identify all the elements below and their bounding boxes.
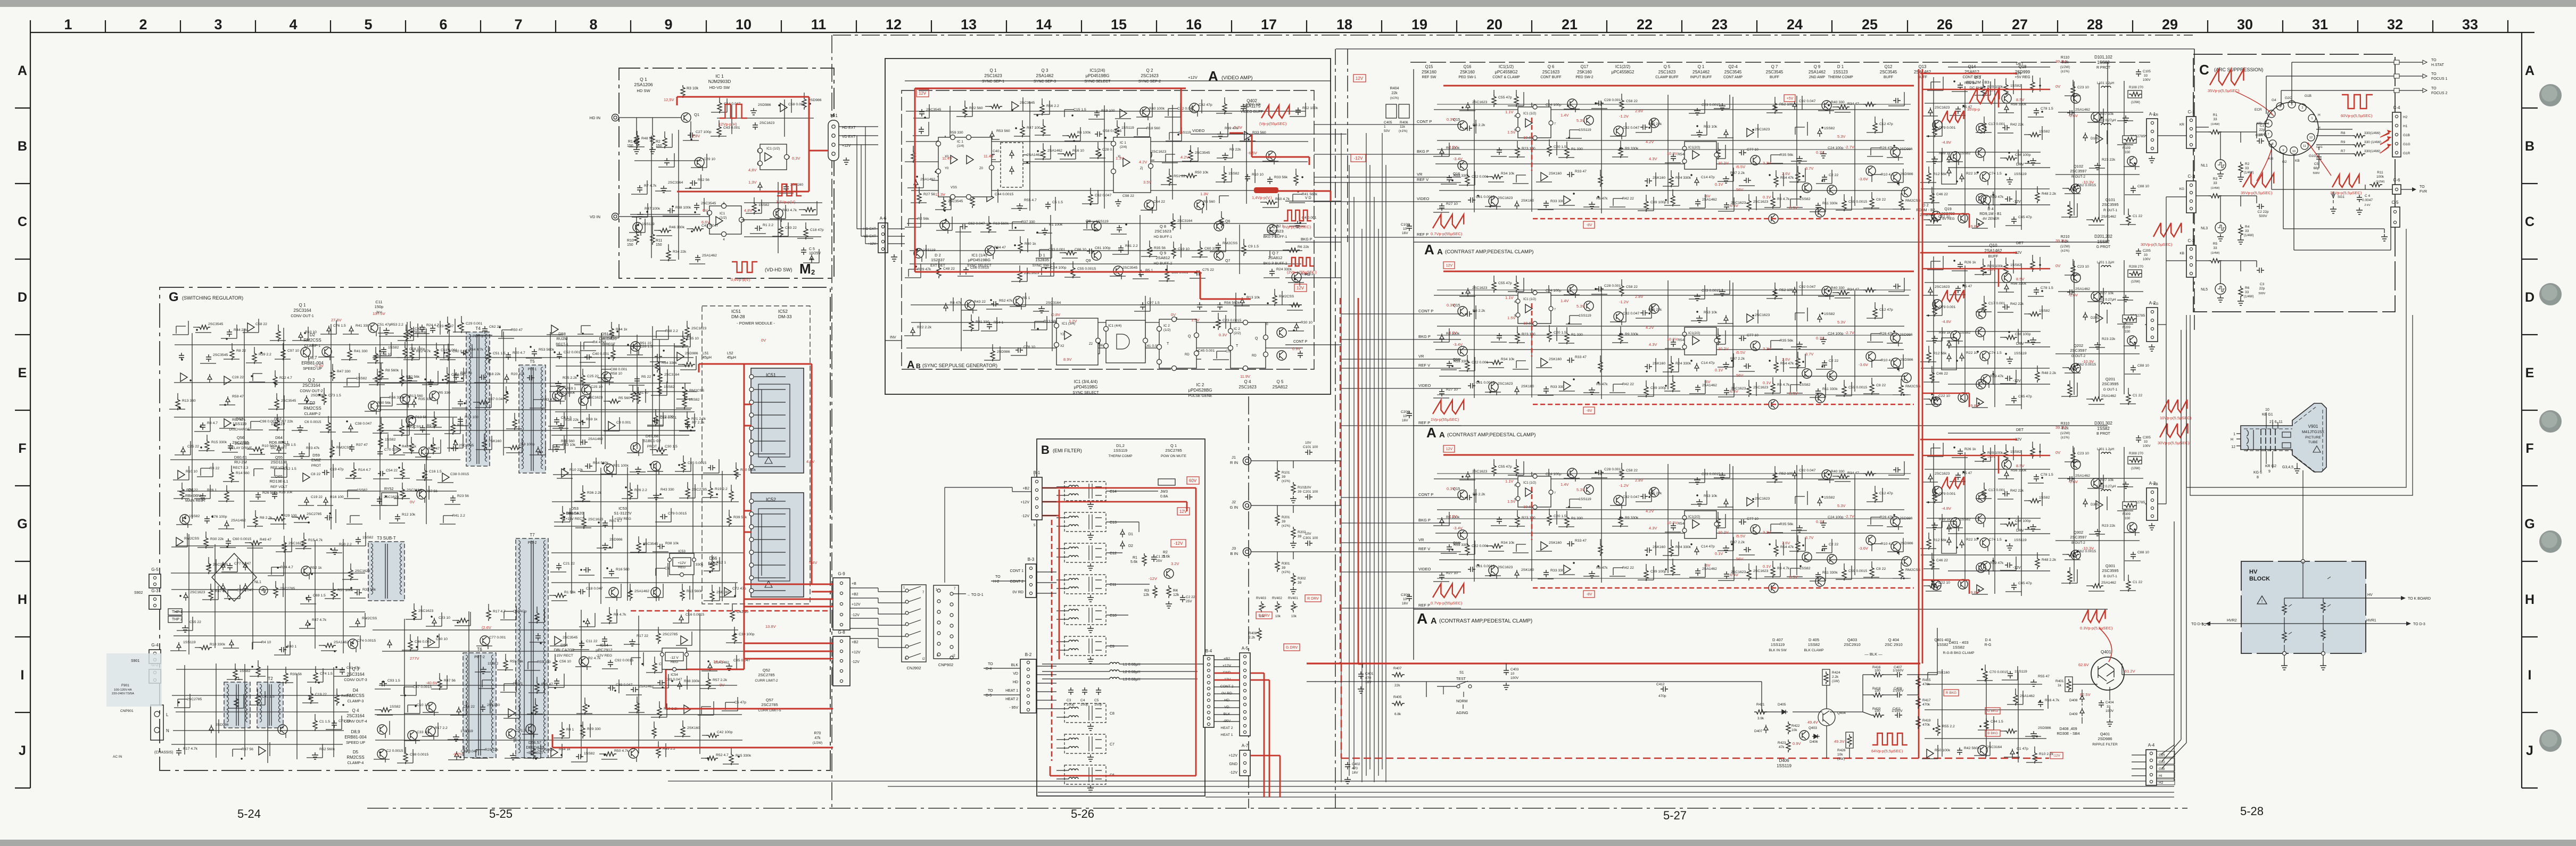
svg-text:R52 47k: R52 47k [999, 299, 1013, 303]
svg-text:15: 15 [1111, 16, 1127, 32]
svg-text:2SC3545: 2SC3545 [926, 108, 942, 112]
svg-text:C46 22: C46 22 [1936, 559, 1948, 562]
svg-text:HI: HI [2159, 774, 2162, 778]
svg-text:RY52: RY52 [384, 487, 393, 491]
svg-text:R5 47: R5 47 [1962, 471, 1972, 475]
svg-text:CONT AMP: CONT AMP [1723, 76, 1743, 79]
output support circuitry band [1920, 442, 2050, 596]
thermal diode D1 [1942, 152, 1956, 184]
svg-text:1SS82: 1SS82 [2039, 309, 2050, 313]
svg-text:R8 2.2k: R8 2.2k [260, 516, 273, 520]
svg-text:C39 0.047: C39 0.047 [616, 683, 633, 687]
svg-text:C22 10: C22 10 [1938, 581, 1950, 585]
svg-text:-2.7V: -2.7V [1845, 514, 1854, 519]
red waveform channel video [1433, 214, 1464, 228]
tube gnd [2294, 466, 2300, 473]
svg-text:2SC2785: 2SC2785 [307, 512, 322, 516]
svg-text:4,8V: 4,8V [748, 168, 756, 172]
red boxed R BKG [1944, 690, 1959, 696]
svg-text:1SS82: 1SS82 [385, 438, 396, 442]
svg-text:C8 22: C8 22 [311, 472, 320, 476]
svg-text:KR: KR [2179, 123, 2184, 127]
svg-text:(±1%): (±1%) [1282, 525, 1290, 528]
svg-text:2SC3164: 2SC3164 [1987, 745, 2002, 749]
svg-text:R59 1k: R59 1k [586, 418, 598, 421]
svg-text:2SC1623: 2SC1623 [1154, 229, 1171, 234]
ground A-6 [891, 254, 897, 261]
svg-text:R53 2.2: R53 2.2 [391, 323, 403, 327]
svg-text:G IN: G IN [1230, 505, 1238, 510]
svg-text:1SS82: 1SS82 [2039, 130, 2050, 134]
svg-text:B PROT: B PROT [2096, 432, 2110, 436]
input jack J3 [1243, 548, 1251, 556]
svg-text:RU-2M: RU-2M [234, 460, 247, 465]
svg-text:D5: D5 [353, 750, 359, 754]
svg-text:Q 8: Q 8 [1160, 224, 1166, 229]
svg-text:E: E [2525, 366, 2534, 380]
svg-text:E: E [18, 366, 27, 380]
svg-text:C32 0.047: C32 0.047 [1623, 495, 1640, 499]
svg-text:L51: L51 [703, 352, 709, 355]
svg-text:33: 33 [2144, 253, 2148, 257]
red waveform 35Vp-p mid [2243, 173, 2274, 187]
R202 resistor [1291, 527, 1295, 540]
svg-text:Q102: Q102 [2074, 164, 2083, 169]
board boundary dash-dot vertical left of C block [2194, 49, 2195, 330]
svg-text:1SS119: 1SS119 [2014, 352, 2027, 355]
svg-text:D66: D66 [709, 556, 717, 561]
svg-text:R23 22k: R23 22k [2102, 337, 2116, 341]
transformer T3 SUB-T [368, 542, 404, 601]
svg-text:22: 22 [1637, 16, 1653, 32]
svg-text:B OUT-1: B OUT-1 [2103, 575, 2117, 578]
svg-text:-2.7V: -2.7V [1845, 330, 1854, 335]
C401 capacitor [1358, 671, 1364, 679]
svg-text:CLAMP BUFF: CLAMP BUFF [1655, 76, 1679, 79]
svg-text:RM2CSS: RM2CSS [689, 389, 705, 393]
red dashed wire B block [1051, 520, 1053, 761]
ground Q1 [1166, 601, 1172, 608]
svg-text:5-25: 5-25 [489, 807, 513, 820]
red wiring B block [1042, 488, 1280, 797]
transistor Q12 [1976, 493, 1986, 502]
svg-text:R IN: R IN [1230, 460, 1238, 465]
svg-text:2SC3595: 2SC3595 [2102, 202, 2118, 207]
svg-text:BKG P: BKG P [1301, 238, 1312, 242]
svg-text:330: 330 [2125, 517, 2131, 520]
svg-text:C2 1.5: C2 1.5 [515, 729, 526, 733]
svg-text:R23 100: R23 100 [1522, 147, 1535, 151]
neon lamp NL5 [2215, 284, 2226, 294]
transistor Q3 [1802, 552, 1812, 562]
svg-text:R33 56k: R33 56k [362, 588, 376, 592]
svg-text:-3.4V: -3.4V [1453, 156, 1463, 161]
svg-text:27: 27 [2012, 16, 2028, 32]
red arrows to C-4 [2380, 130, 2391, 153]
wires into A-6 [857, 127, 905, 244]
svg-text:DRV: DRV [2016, 342, 2024, 346]
svg-text:C404: C404 [2106, 701, 2114, 704]
svg-text:7: 7 [1554, 492, 1556, 495]
svg-text:Q 1: Q 1 [1698, 64, 1705, 69]
svg-text:2SA1462: 2SA1462 [1702, 567, 1717, 571]
svg-text:RD6.2M - B3: RD6.2M - B3 [1966, 80, 1989, 85]
CRT socket circle [2265, 102, 2318, 155]
svg-text:12k: 12k [1143, 593, 1150, 597]
svg-text:D201: D201 [2091, 316, 2099, 320]
connector C-3 [2186, 245, 2196, 277]
transistor Q13 [1976, 194, 1986, 203]
svg-text:1SS82: 1SS82 [689, 398, 700, 402]
svg-text:35Vp-p: 35Vp-p [1967, 107, 1980, 112]
svg-text:R6 47k: R6 47k [1596, 383, 1608, 386]
svg-text:2: 2 [139, 16, 147, 32]
svg-text:R34 47: R34 47 [994, 246, 1006, 250]
svg-text:R8 22: R8 22 [236, 349, 246, 353]
svg-text:2SK160: 2SK160 [687, 726, 700, 730]
svg-text:-1.2V: -1.2V [1619, 483, 1629, 488]
svg-text:150p: 150p [375, 304, 384, 309]
svg-text:0.1V: 0.1V [1763, 380, 1771, 385]
svg-text:C16 1.5: C16 1.5 [429, 470, 442, 474]
svg-text:1SS119: 1SS119 [2014, 172, 2027, 176]
svg-text:PED SW-1: PED SW-1 [1458, 76, 1476, 79]
svg-text:C-6: C-6 [2393, 178, 2400, 183]
svg-text:R42 22k: R42 22k [2010, 489, 2024, 493]
svg-text:2SC 2910: 2SC 2910 [1885, 642, 1902, 647]
svg-text:(±1%): (±1%) [1282, 571, 1290, 574]
svg-text:VIDEO BUFF: VIDEO BUFF [1241, 110, 1264, 114]
svg-text:R12 56k: R12 56k [1933, 352, 1947, 355]
svg-text:R54 1: R54 1 [994, 321, 1003, 325]
svg-text:R4 10: R4 10 [261, 641, 271, 644]
svg-text:2SC2785: 2SC2785 [758, 673, 774, 677]
svg-text:2SA1462: 2SA1462 [2075, 287, 2090, 291]
svg-text:T4: T4 [475, 326, 481, 331]
IC1(2/2) op-amp box [1685, 327, 1716, 355]
svg-text:C43 0.001: C43 0.001 [723, 126, 740, 130]
svg-text:R10 330k: R10 330k [210, 643, 226, 646]
svg-text:12,5V: 12,5V [664, 97, 674, 102]
svg-text:R426: R426 [1837, 749, 1846, 752]
svg-text:R DRV: R DRV [1307, 597, 1319, 601]
svg-text:R11: R11 [656, 239, 662, 243]
svg-text:64Vp-p(5,5μSEC): 64Vp-p(5,5μSEC) [1871, 749, 1903, 753]
svg-text:KB: KB [2295, 159, 2300, 163]
svg-text:B: B [1041, 443, 1050, 457]
svg-text:G1G: G1G [2309, 154, 2316, 158]
svg-text:HD: HD [1013, 681, 1018, 684]
svg-text:100V: 100V [1510, 676, 1519, 680]
svg-text:C70 0.001: C70 0.001 [384, 448, 401, 452]
svg-text:R-G-B BKG CLAMP: R-G-B BKG CLAMP [1943, 651, 1975, 655]
svg-text:SYNC SEP-1: SYNC SEP-1 [982, 79, 1004, 84]
svg-text:R54 47k: R54 47k [1780, 176, 1794, 180]
binder punch hole [2539, 84, 2562, 106]
svg-text:NJM2903D: NJM2903D [708, 79, 731, 84]
svg-text:C74 1.5: C74 1.5 [1989, 351, 2002, 355]
red boxed label R DRV [1305, 595, 1321, 602]
channel red supply rail [1443, 85, 1914, 87]
svg-text:Q8: Q8 [1086, 220, 1091, 223]
svg-text:60Vp-p(5,5μSEC): 60Vp-p(5,5μSEC) [2341, 113, 2373, 118]
R301 resistor [1275, 559, 1279, 572]
svg-text:C17 0.001: C17 0.001 [1988, 488, 2005, 492]
svg-text:R53 10k: R53 10k [1704, 125, 1718, 129]
svg-text:5: 5 [364, 16, 372, 32]
transistor Q6 [1214, 221, 1224, 231]
HV block wires [2209, 561, 2384, 653]
svg-text:Q57: Q57 [766, 698, 773, 702]
svg-text:CLAMP-4: CLAMP-4 [348, 761, 364, 765]
svg-text:R11 330k: R11 330k [1822, 571, 1838, 575]
svg-text:IC1(2/4): IC1(2/4) [1090, 68, 1105, 73]
svg-text:R8 22: R8 22 [210, 467, 219, 470]
svg-text:R22 10: R22 10 [1966, 172, 1978, 176]
IC1(2/2) op-amp box [1685, 142, 1716, 169]
svg-text:6V: 6V [703, 208, 707, 213]
diode D301 [2083, 499, 2087, 507]
svg-text:C47 0.0015: C47 0.0015 [413, 685, 432, 689]
red boxed label G DRV [1284, 644, 1300, 651]
svg-text:G BKG: G BKG [1987, 709, 1999, 713]
svg-text:C97 1.5: C97 1.5 [1147, 301, 1160, 305]
svg-text:D4: D4 [353, 688, 359, 693]
wires G9/G8 to CNJ902 [850, 487, 1031, 648]
svg-text:D64: D64 [275, 435, 283, 440]
block M2 border [619, 68, 834, 278]
svg-text:R38 330k: R38 330k [684, 679, 700, 683]
svg-text:0V: 0V [761, 338, 766, 343]
bottom scanner strip [0, 840, 2576, 846]
svg-text:-6.4V: -6.4V [1729, 389, 1738, 394]
svg-text:HVR1: HVR1 [2366, 619, 2376, 623]
svg-text:1: 1 [64, 16, 72, 32]
red waveform 1.5Vp-p(V) [777, 184, 802, 196]
svg-text:22k: 22k [1391, 92, 1398, 95]
svg-text:C76 1.5: C76 1.5 [333, 324, 346, 328]
svg-text:100V: 100V [2143, 258, 2151, 261]
svg-text:25V: 25V [1156, 559, 1162, 563]
svg-text:C59 0.0015: C59 0.0015 [1848, 569, 1867, 573]
Q403 transistor [1799, 731, 1809, 740]
svg-text:F901: F901 [121, 684, 129, 687]
svg-text:2SC1623: 2SC1623 [984, 73, 1002, 78]
svg-text:1SS82: 1SS82 [2010, 450, 2021, 454]
svg-text:0.1V: 0.1V [1715, 368, 1723, 372]
svg-text:R6 2.2k: R6 2.2k [1473, 123, 1485, 127]
svg-text:-9.8V: -9.8V [1969, 224, 1979, 229]
svg-text:C17 0.001: C17 0.001 [1988, 302, 2005, 305]
svg-text:C6 0.0015: C6 0.0015 [304, 420, 321, 424]
transistor Q301 [2071, 550, 2080, 560]
svg-text:0.3V: 0.3V [1447, 486, 1455, 491]
svg-text:R56 2.2: R56 2.2 [1046, 104, 1059, 108]
svg-text:G DRV: G DRV [1286, 646, 1298, 650]
svg-text:V D: V D [1305, 196, 1311, 200]
connector C-4 [2392, 112, 2401, 157]
svg-text:47k: 47k [814, 736, 821, 740]
svg-text:8.5V: 8.5V [2016, 463, 2024, 468]
svg-text:R14 4.7: R14 4.7 [358, 468, 371, 472]
svg-text:RM2CSS: RM2CSS [346, 755, 364, 760]
svg-text:D406: D406 [1810, 740, 1818, 744]
transistor Q9 [1902, 373, 1911, 383]
svg-text:C205: C205 [2143, 249, 2151, 253]
transistor Q19 support [1958, 393, 1968, 402]
svg-text:R109: R109 [2123, 146, 2131, 150]
svg-text:10: 10 [1510, 672, 1515, 676]
svg-text:ERB81-004: ERB81-004 [344, 735, 367, 740]
svg-text:R55 100: R55 100 [537, 660, 551, 664]
svg-text:2SK160: 2SK160 [487, 703, 500, 707]
svg-text:C59 0.0015: C59 0.0015 [1848, 386, 1867, 389]
svg-text:C42 100p: C42 100p [717, 731, 733, 734]
svg-text:8: 8 [2257, 476, 2259, 479]
svg-text:R37 56: R37 56 [426, 490, 437, 493]
svg-text:R17 2.2: R17 2.2 [435, 726, 448, 730]
svg-text:KG: KG [2153, 302, 2158, 306]
svg-text:R21 100k: R21 100k [613, 464, 629, 468]
C1 capacitor [1151, 554, 1157, 562]
C101 capacitor [1305, 450, 1312, 455]
svg-text:1SS82: 1SS82 [1808, 642, 1820, 647]
svg-text:100: 100 [1875, 689, 1880, 693]
svg-text:2SA1462: 2SA1462 [1036, 73, 1054, 78]
svg-text:-6V: -6V [1704, 563, 1711, 568]
svg-text:C105: C105 [2143, 70, 2151, 73]
svg-text:D-5: D-5 [986, 694, 992, 698]
svg-text:R29 47k: R29 47k [1990, 561, 2004, 565]
svg-text:2SC3597: 2SC3597 [2070, 348, 2086, 353]
svg-text:R4: R4 [1173, 589, 1178, 593]
svg-text:1SS82: 1SS82 [2010, 84, 2021, 88]
R9 resistor [2352, 143, 2365, 147]
arrow TO H-2 [991, 580, 1026, 582]
svg-text:R BKG: R BKG [1946, 691, 1956, 695]
svg-text:C46 22: C46 22 [1936, 193, 1948, 196]
M2 interior circuitry left [629, 130, 707, 264]
top scanner strip [0, 0, 2576, 7]
svg-text:VR: VR [1418, 354, 1424, 359]
G block interior circuitry (upper left) [169, 317, 460, 529]
IC2 (1/2) flip-flop box [1159, 319, 1196, 368]
svg-text:IC 1: IC 1 [715, 73, 724, 79]
svg-text:-1.2V: -1.2V [1619, 114, 1629, 119]
svg-text:C-1: C-1 [2188, 110, 2195, 114]
svg-text:M-1: M-1 [830, 113, 838, 118]
svg-text:JW3: JW3 [1160, 490, 1168, 494]
R102 resistor [1291, 482, 1295, 495]
TO FOCUS1 arrow [2266, 76, 2427, 114]
svg-text:16V: 16V [1365, 681, 1372, 684]
red saw support [1942, 290, 1964, 302]
svg-text:R37 2.2k: R37 2.2k [1730, 541, 1745, 544]
svg-text:C74 0.0015: C74 0.0015 [357, 639, 376, 643]
D407 diode [1764, 725, 1768, 733]
svg-text:1.1V: 1.1V [1505, 295, 1513, 300]
svg-text:+12V: +12V [1188, 75, 1198, 80]
svg-text:(±1%): (±1%) [2061, 436, 2069, 439]
red dashed -8V line [1532, 487, 1914, 588]
svg-text:C81 0.0015: C81 0.0015 [1476, 565, 1495, 568]
svg-text:R26 1k: R26 1k [1964, 261, 1976, 264]
svg-text:C62 22: C62 22 [489, 325, 501, 329]
svg-text:R23 100: R23 100 [1522, 516, 1535, 520]
svg-text:R56 560k: R56 560k [1224, 301, 1240, 305]
svg-text:R209: R209 [2123, 326, 2131, 329]
svg-text:C45 47p: C45 47p [2018, 215, 2032, 219]
svg-text:A: A [1417, 610, 1427, 627]
svg-text:R29 47k: R29 47k [918, 268, 931, 271]
svg-text:R417: R417 [1922, 699, 1931, 702]
svg-text:D54: D54 [560, 643, 568, 648]
FET Q15 [1458, 121, 1467, 130]
svg-text:C46 22: C46 22 [1936, 372, 1948, 376]
svg-text:R39 1k: R39 1k [1939, 518, 1951, 521]
svg-text:R39 2.2: R39 2.2 [259, 353, 271, 356]
connector A-7 [1240, 750, 1250, 776]
svg-text:R4 4.7k: R4 4.7k [614, 613, 626, 617]
svg-text:R52 4.7: R52 4.7 [716, 753, 729, 757]
red wiring A block [915, 88, 1331, 299]
FET Q16 [1458, 530, 1467, 540]
svg-text:R33 47: R33 47 [1575, 170, 1587, 173]
svg-text:D401 - 403: D401 - 403 [1948, 640, 1968, 645]
svg-text:7: 7 [2267, 133, 2269, 136]
svg-text:Q403: Q403 [1847, 637, 1857, 642]
transistor Q19 support [1958, 213, 1968, 223]
svg-text:35Vp-p(5,5μSEC): 35Vp-p(5,5μSEC) [2241, 190, 2273, 195]
svg-text:RV403: RV403 [1256, 596, 1266, 600]
svg-text:G-3: G-3 [151, 588, 159, 593]
svg-text:R56 330k: R56 330k [389, 396, 405, 400]
svg-text:CONT 2: CONT 2 [1010, 580, 1023, 584]
svg-text:8: 8 [2272, 143, 2273, 146]
svg-text:C34 10: C34 10 [415, 327, 426, 331]
svg-text:J3: J3 [1232, 546, 1236, 551]
svg-text:VD: VD [1013, 672, 1018, 676]
coil L202 [2101, 303, 2111, 304]
svg-text:Q 6: Q 6 [1548, 64, 1555, 69]
svg-text:R406: R406 [1400, 121, 1408, 125]
svg-text:R4 47k: R4 47k [950, 301, 962, 305]
svg-text:A: A [2525, 63, 2534, 78]
C2 capacitor C block [2257, 204, 2264, 209]
svg-text:T7: T7 [530, 533, 535, 537]
svg-text:RM2CSS: RM2CSS [1279, 295, 1294, 298]
svg-text:I: I [21, 668, 24, 683]
svg-text:C28 0.001: C28 0.001 [1604, 98, 1621, 102]
svg-text:(VIDEO AMP): (VIDEO AMP) [1221, 75, 1253, 81]
ground stubs A connectors [2149, 156, 2155, 163]
svg-text:39: 39 [1298, 535, 1302, 538]
svg-text:AGING: AGING [1456, 711, 1468, 715]
svg-text:0.0047: 0.0047 [2362, 198, 2373, 202]
svg-text:7: 7 [514, 16, 522, 32]
svg-text:REF SW: REF SW [1422, 76, 1436, 79]
transistor Q101 [2071, 184, 2080, 194]
svg-text:R13 56: R13 56 [415, 416, 427, 419]
svg-text:R13 330: R13 330 [182, 399, 196, 403]
output support circuitry band [1920, 76, 2050, 230]
svg-text:C78 1.5: C78 1.5 [2041, 286, 2053, 290]
svg-text:2SC3545: 2SC3545 [459, 444, 474, 447]
svg-text:A: A [1431, 617, 1437, 626]
red vertical feed out column [1919, 69, 1922, 758]
svg-text:(1/2): (1/2) [720, 216, 726, 220]
transistor Q5 [1751, 155, 1760, 165]
